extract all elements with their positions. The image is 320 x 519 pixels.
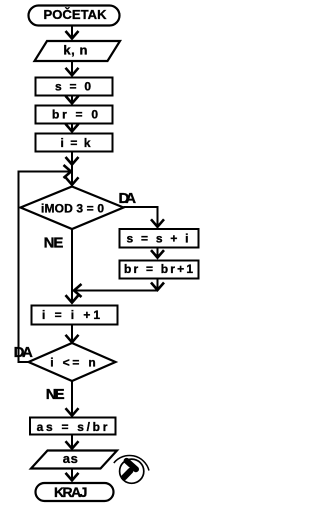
wire [71, 326, 73, 342]
svg-text:NE: NE [44, 234, 64, 251]
icon glyph bar2 [124, 471, 130, 478]
wire [71, 61, 73, 75]
terminator KRAJ [36, 483, 114, 501]
svg-text:KRAJ: KRAJ [54, 484, 88, 500]
svg-text:as = s/br: as = s/br [37, 420, 108, 434]
svg-text:NE: NE [46, 386, 65, 403]
icon inner circle [120, 459, 144, 483]
svg-text:br = 0: br = 0 [52, 107, 98, 121]
icon: circle with handset glyph [114, 455, 149, 483]
svg-text:s = s + i: s = s + i [127, 232, 189, 246]
process box br=br+1 [120, 261, 199, 279]
svg-text:i <= n: i <= n [50, 356, 96, 370]
arrowhead merge points left [74, 284, 82, 297]
svg-text:POČETAK: POČETAK [44, 7, 108, 22]
arrowhead into br=br+1 [151, 250, 164, 258]
svg-text:as: as [63, 451, 78, 466]
decision diamond i<=n [29, 343, 116, 381]
wire [71, 97, 73, 103]
wire [71, 469, 73, 480]
svg-text:k, n: k, n [63, 43, 87, 58]
arrowhead into as=s/br [66, 408, 79, 416]
process box br=0 [36, 106, 113, 124]
arrowheads [64, 31, 165, 480]
wire NE down [71, 229, 73, 302]
process box i=k [36, 134, 113, 152]
process box i=i+1 [32, 306, 118, 325]
svg-text:DA: DA [119, 190, 137, 207]
arrowhead into diamond1 [66, 177, 79, 185]
arrowhead into s=0 [66, 68, 79, 76]
wire [156, 280, 158, 290]
wire [71, 436, 73, 448]
wire loop back [19, 172, 71, 363]
svg-text:s = 0: s = 0 [55, 79, 91, 93]
icon outer arc [114, 455, 149, 470]
output parallelogram as [31, 451, 117, 469]
arrowhead into as output [66, 441, 79, 449]
input parallelogram k,n [35, 41, 121, 61]
terminator POČETAK [29, 6, 120, 26]
wire [71, 171, 73, 187]
arrowhead into br=0 [66, 96, 79, 104]
arrowhead into i=i+1 [66, 295, 79, 303]
arrowhead into i=k [66, 124, 79, 131]
svg-text:i = k: i = k [61, 136, 91, 150]
decision diamond iMOD3=0 [21, 187, 124, 230]
wire [71, 27, 73, 38]
arrowhead corner junction [151, 283, 164, 291]
wire merge horizontal [75, 289, 158, 291]
process box s=s+i [120, 229, 199, 248]
arrowhead into KRAJ [66, 473, 79, 481]
arrowhead into k,n [66, 31, 79, 39]
arrowhead loop into junction (points right) [64, 165, 72, 178]
arrowhead junction above diamond1 [66, 157, 79, 165]
wire [71, 125, 73, 131]
wire [71, 153, 73, 171]
icon glyph bar1 [127, 461, 136, 469]
process box s=0 [36, 78, 113, 96]
arrowhead into s=s+i [151, 219, 164, 227]
wire [156, 249, 158, 257]
arrowhead into diamond2 [66, 335, 79, 343]
svg-text:iMOD 3 = 0: iMOD 3 = 0 [41, 202, 104, 216]
process box as=s/br [30, 418, 116, 435]
wire [71, 381, 73, 415]
svg-text:DA: DA [14, 344, 33, 361]
wire DA right [124, 207, 158, 226]
